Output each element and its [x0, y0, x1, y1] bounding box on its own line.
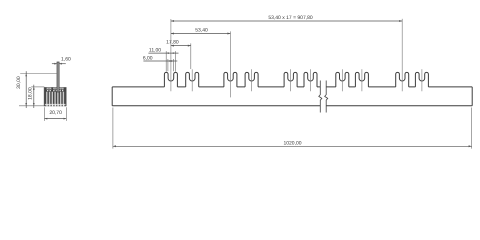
busbar main view: left piece top edge with fork gaps [112, 86, 472, 88]
fork terminal 7 [336, 72, 349, 87]
break line [325, 81, 328, 113]
fork terminal 3 [224, 72, 237, 87]
section blade (1,60 contact tab) [57, 62, 59, 92]
section housing top band [44, 88, 66, 92]
svg-text:53,40: 53,40 [195, 28, 208, 33]
svg-text:11,00: 11,00 [149, 47, 161, 53]
dimension 20,70 [45, 110, 67, 120]
fork terminal 8 [355, 72, 368, 87]
svg-text:30,00: 30,00 [16, 76, 22, 89]
dimension 53,40 x 17 = 907,80 [171, 15, 402, 22]
extension line bottom left [112, 108, 114, 149]
fork terminal 2 [186, 72, 199, 87]
extension line prong1 center [165, 51, 167, 72]
dimension 30,00 [16, 71, 27, 108]
busbar bottom edge [112, 105, 472, 107]
svg-text:1,60: 1,60 [61, 57, 71, 63]
extension line section bottom [19, 105, 44, 107]
extension line housing top (18,00) [31, 86, 44, 88]
extension line slot right [172, 59, 174, 71]
extension line prong2 center [174, 51, 176, 72]
centerline fork 1 [170, 19, 172, 91]
centerline fork 3 [229, 31, 231, 97]
centerline fork 4 [251, 69, 253, 91]
svg-text:18,00: 18,00 [27, 87, 33, 100]
break line [319, 81, 322, 113]
svg-text:6,00: 6,00 [143, 55, 153, 61]
extension line slot left [167, 59, 169, 71]
svg-text:53,40 x 17 = 907,80: 53,40 x 17 = 907,80 [268, 15, 313, 21]
centerline fork 6 [310, 69, 312, 91]
section housing body [44, 88, 66, 106]
section housing arches [46, 89, 51, 92]
dimension 6,00 [143, 55, 177, 62]
dimension 1020,00 [113, 140, 472, 147]
dimension 17,80 [166, 39, 191, 46]
fork terminal 6 [304, 72, 317, 87]
fork terminal 10 [415, 72, 428, 87]
section housing bottom notches [46, 104, 47, 107]
extension line housing left (20,70) [44, 107, 46, 121]
extension line housing right (20,70) [65, 107, 67, 121]
centerline fork 5 [290, 69, 292, 91]
centerline fork 9 [401, 19, 403, 92]
fork terminal 5 [284, 72, 297, 87]
extension line section top (30,00) [20, 73, 57, 75]
fork terminal 4 [245, 72, 258, 87]
busbar left end edge [111, 87, 113, 106]
fork terminal 9 [396, 72, 409, 87]
fork terminal 1 [164, 72, 177, 87]
extension line 17,80 right [190, 43, 192, 69]
centerline fork 2 [191, 69, 193, 91]
dimension 18,00 [27, 85, 34, 108]
dimension 11,00 [148, 47, 178, 54]
section housing comb teeth hatch [45, 92, 46, 104]
centerline fork 8 [361, 69, 363, 91]
svg-text:1020,00: 1020,00 [283, 140, 301, 146]
centerline fork 7 [341, 69, 343, 91]
dimension 1,60 [52, 57, 71, 65]
dimension 53,40 [171, 28, 231, 35]
busbar right end edge [471, 87, 473, 106]
svg-text:20,70: 20,70 [49, 110, 62, 116]
extension line bottom right [471, 108, 473, 149]
svg-text:17,80: 17,80 [166, 39, 179, 45]
centerline fork 10 [421, 69, 423, 91]
